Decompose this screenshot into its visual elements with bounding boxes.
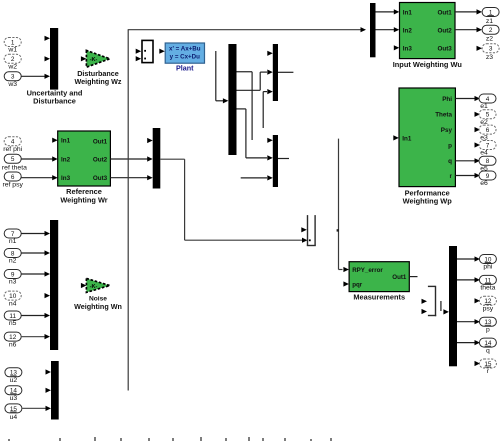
svg-text:Measurements: Measurements bbox=[353, 293, 405, 302]
svg-text:-K-: -K- bbox=[90, 284, 98, 290]
svg-text:6: 6 bbox=[11, 174, 15, 181]
wire Measurements Out1 stub bbox=[409, 276, 417, 278]
svg-text:Plant: Plant bbox=[176, 63, 194, 72]
svg-text:Out3: Out3 bbox=[93, 175, 108, 182]
svg-text:e6: e6 bbox=[480, 180, 488, 187]
svg-text:Out1: Out1 bbox=[437, 10, 452, 17]
svg-text:psy: psy bbox=[483, 306, 494, 313]
svg-text:7: 7 bbox=[11, 231, 15, 238]
mux Uncertainty and Disturbance bbox=[50, 28, 58, 90]
wire demux to Wu In1 bbox=[376, 11, 395, 13]
svg-text:u2: u2 bbox=[10, 377, 18, 384]
svg-text:In1: In1 bbox=[402, 135, 412, 142]
node w1 input port 1 bbox=[4, 38, 21, 47]
node ref psy input port 6 bbox=[4, 172, 21, 181]
svg-text:8: 8 bbox=[486, 158, 490, 165]
wire Wu Out2 to z2 bbox=[455, 29, 477, 31]
node e5 output port 8 bbox=[479, 156, 496, 165]
node z2 output port 2 bbox=[482, 25, 499, 34]
subsystem Reference Weighting Wr bbox=[52, 138, 58, 143]
svg-text:n5: n5 bbox=[9, 320, 17, 327]
demux before Wu bbox=[370, 3, 376, 57]
node e3 output port 6 bbox=[475, 127, 481, 132]
svg-text:Weighting Wz: Weighting Wz bbox=[75, 77, 122, 86]
svg-text:ref theta: ref theta bbox=[2, 165, 27, 172]
wire n3 to noise mux bbox=[21, 273, 45, 275]
node n6 input port 12 bbox=[4, 332, 21, 341]
svg-text:Phi: Phi bbox=[442, 96, 452, 103]
svg-text:e1: e1 bbox=[480, 103, 488, 110]
svg-text:2: 2 bbox=[11, 56, 15, 63]
svg-text:e4: e4 bbox=[480, 150, 488, 157]
node theta output port 11 bbox=[457, 279, 475, 281]
node q output port 14 bbox=[457, 342, 475, 344]
svg-text:theta: theta bbox=[480, 285, 495, 292]
svg-text:5: 5 bbox=[486, 112, 490, 119]
svg-text:9: 9 bbox=[486, 173, 490, 180]
svg-text:ref psy: ref psy bbox=[2, 181, 23, 188]
svg-text:12: 12 bbox=[9, 334, 17, 341]
wire Wr Out2 to mid mux bbox=[110, 158, 147, 160]
svg-text:Out3: Out3 bbox=[437, 45, 452, 52]
wire Plant output to demux bbox=[215, 51, 217, 101]
svg-text:n2: n2 bbox=[9, 258, 17, 265]
mux noise inputs bbox=[50, 220, 58, 350]
svg-text:4: 4 bbox=[11, 139, 15, 146]
wire n6 to noise mux bbox=[21, 336, 45, 338]
wire demux out4 to mux M2 in2 bbox=[237, 108, 246, 110]
svg-text:10: 10 bbox=[9, 293, 17, 300]
svg-text:In3: In3 bbox=[403, 45, 413, 52]
wire n2 to noise mux bbox=[21, 252, 45, 254]
node n4 input port 10 bbox=[4, 291, 21, 300]
svg-text:phi: phi bbox=[483, 264, 493, 271]
wire demux out2 dangling bbox=[237, 71, 253, 73]
svg-text:Weighting Wn: Weighting Wn bbox=[74, 302, 122, 311]
svg-text:q: q bbox=[486, 347, 490, 354]
wire Wp Phi to e1 bbox=[455, 98, 475, 100]
svg-text:Out1: Out1 bbox=[93, 139, 108, 146]
node e4 output port 7 bbox=[475, 142, 481, 147]
svg-text:5: 5 bbox=[11, 156, 15, 163]
svg-text:Weighting Wp: Weighting Wp bbox=[403, 197, 453, 206]
wire mux M1 output stub bbox=[278, 71, 293, 73]
node e6 output port 9 bbox=[479, 171, 496, 180]
wire dangling to mux M1 in3 bbox=[262, 92, 264, 128]
wire Wp r to e6 bbox=[455, 175, 475, 177]
demux measurements outputs bbox=[449, 246, 457, 366]
demux plant outputs bbox=[228, 44, 236, 155]
node ref phi input port 4 bbox=[4, 137, 21, 146]
svg-text:pqr: pqr bbox=[352, 281, 363, 288]
svg-text:ref phi: ref phi bbox=[3, 146, 22, 153]
wire RPY error vertical bbox=[338, 139, 340, 270]
svg-text:n6: n6 bbox=[9, 341, 17, 348]
svg-text:11: 11 bbox=[9, 313, 16, 320]
svg-text:w3: w3 bbox=[7, 81, 17, 88]
svg-text:Input Weighting Wu: Input Weighting Wu bbox=[393, 60, 463, 69]
mux before Plant bbox=[142, 40, 153, 62]
node z1 output port 1 bbox=[482, 8, 499, 17]
node z3 output port 3 bbox=[477, 46, 483, 51]
svg-text:z3: z3 bbox=[486, 54, 493, 61]
svg-text:Out2: Out2 bbox=[93, 156, 108, 163]
wire mux M2 output stub bbox=[278, 158, 289, 160]
svg-text:9: 9 bbox=[11, 271, 15, 278]
svg-text:1: 1 bbox=[11, 39, 15, 46]
svg-text:RPY_error: RPY_error bbox=[352, 267, 383, 274]
svg-text:3: 3 bbox=[489, 46, 493, 53]
node w2 input port 2 bbox=[4, 54, 21, 63]
wire ref psy to Wr In3 bbox=[21, 177, 52, 179]
gain Noise Weighting Wn bbox=[81, 283, 87, 288]
svg-text:Weighting Wr: Weighting Wr bbox=[60, 195, 107, 204]
svg-text:4: 4 bbox=[486, 96, 490, 103]
wire w3 to mux bbox=[21, 75, 45, 77]
svg-text:u4: u4 bbox=[10, 414, 18, 421]
mux open-top white bbox=[307, 215, 309, 245]
wire Wr Out3 to mid mux bbox=[110, 177, 147, 179]
svg-text:p: p bbox=[448, 142, 452, 149]
svg-text:w2: w2 bbox=[7, 63, 17, 70]
gain Disturbance Weighting Wz bbox=[81, 56, 87, 61]
svg-text:2: 2 bbox=[489, 27, 493, 34]
svg-text:6: 6 bbox=[486, 127, 490, 134]
svg-text:Out2: Out2 bbox=[437, 27, 452, 34]
svg-text:r: r bbox=[487, 368, 490, 375]
node u2 input port 13 bbox=[5, 368, 22, 377]
svg-text:y = Cx+Du: y = Cx+Du bbox=[170, 54, 200, 61]
svg-text:Psy: Psy bbox=[441, 127, 453, 134]
wire Wp q to e5 bbox=[455, 160, 475, 162]
cropped text fragments at bottom edge bbox=[8, 439, 10, 441]
svg-text:8: 8 bbox=[11, 250, 15, 257]
svg-text:In2: In2 bbox=[403, 27, 413, 34]
svg-text:In3: In3 bbox=[61, 175, 71, 182]
svg-text:u3: u3 bbox=[10, 395, 18, 402]
svg-text:In2: In2 bbox=[61, 156, 71, 163]
mux bottom control inputs bbox=[51, 361, 59, 420]
svg-text:In1: In1 bbox=[61, 138, 71, 145]
svg-text:z2: z2 bbox=[486, 36, 493, 43]
subsystem Performance Weighting Wp bbox=[393, 135, 399, 140]
svg-text:7: 7 bbox=[486, 142, 490, 149]
svg-text:-K-: -K- bbox=[90, 57, 98, 63]
node u3 input port 14 bbox=[5, 386, 22, 395]
svg-text:q: q bbox=[448, 158, 452, 165]
node n2 input port 8 bbox=[4, 249, 21, 258]
state-space block Plant bbox=[159, 49, 165, 54]
mux mid to measurements route bbox=[153, 128, 161, 189]
wire bracket mux to right demux bbox=[440, 301, 442, 311]
svg-text:w1: w1 bbox=[7, 47, 17, 54]
mux M2 bbox=[273, 135, 278, 187]
svg-text:In1: In1 bbox=[403, 10, 413, 17]
mux M1 bbox=[273, 44, 278, 101]
svg-text:x' = Ax+Bu: x' = Ax+Bu bbox=[169, 45, 201, 52]
node psy output port 12 bbox=[475, 298, 481, 303]
svg-text:n3: n3 bbox=[9, 279, 17, 286]
svg-text:n1: n1 bbox=[9, 238, 17, 245]
svg-text:3: 3 bbox=[11, 74, 15, 81]
svg-text:z1: z1 bbox=[486, 18, 493, 25]
wire demux out3 to mux M1 in2 bbox=[237, 89, 261, 91]
subsystem Input Weighting Wu bbox=[394, 45, 400, 50]
node phi output port 10 bbox=[457, 258, 475, 260]
wire feedback loop bbox=[127, 30, 129, 391]
svg-text:p: p bbox=[486, 326, 490, 333]
node n1 input port 7 bbox=[4, 229, 21, 238]
node n3 input port 9 bbox=[4, 270, 21, 279]
node e2 output port 5 bbox=[475, 112, 481, 117]
wire u4 to bottom mux bbox=[22, 407, 47, 409]
node p output port 13 bbox=[457, 321, 475, 323]
svg-text:n4: n4 bbox=[9, 300, 17, 307]
wire n1 to noise mux bbox=[21, 233, 45, 235]
wire ref theta to Wr In2 bbox=[21, 158, 52, 160]
mux bracket near right demux bbox=[428, 285, 436, 287]
node ref theta input port 5 bbox=[4, 154, 21, 163]
svg-text:Out1: Out1 bbox=[392, 274, 407, 281]
svg-text:Theta: Theta bbox=[435, 112, 452, 119]
node n5 input port 11 bbox=[4, 311, 21, 320]
node w3 input port 3 bbox=[4, 72, 21, 81]
subsystem Measurements bbox=[343, 281, 349, 286]
wire n5 to noise mux bbox=[21, 315, 45, 317]
wire Wu Out1 to z1 bbox=[455, 11, 477, 13]
node u4 input port 15 bbox=[5, 404, 22, 413]
svg-text:Disturbance: Disturbance bbox=[33, 96, 76, 105]
node r output port 15 bbox=[475, 361, 481, 366]
wire demux to Wu In2 bbox=[376, 29, 395, 31]
node e1 output port 4 bbox=[479, 94, 496, 103]
wire to mux M2 in3 dangling bbox=[241, 177, 267, 179]
